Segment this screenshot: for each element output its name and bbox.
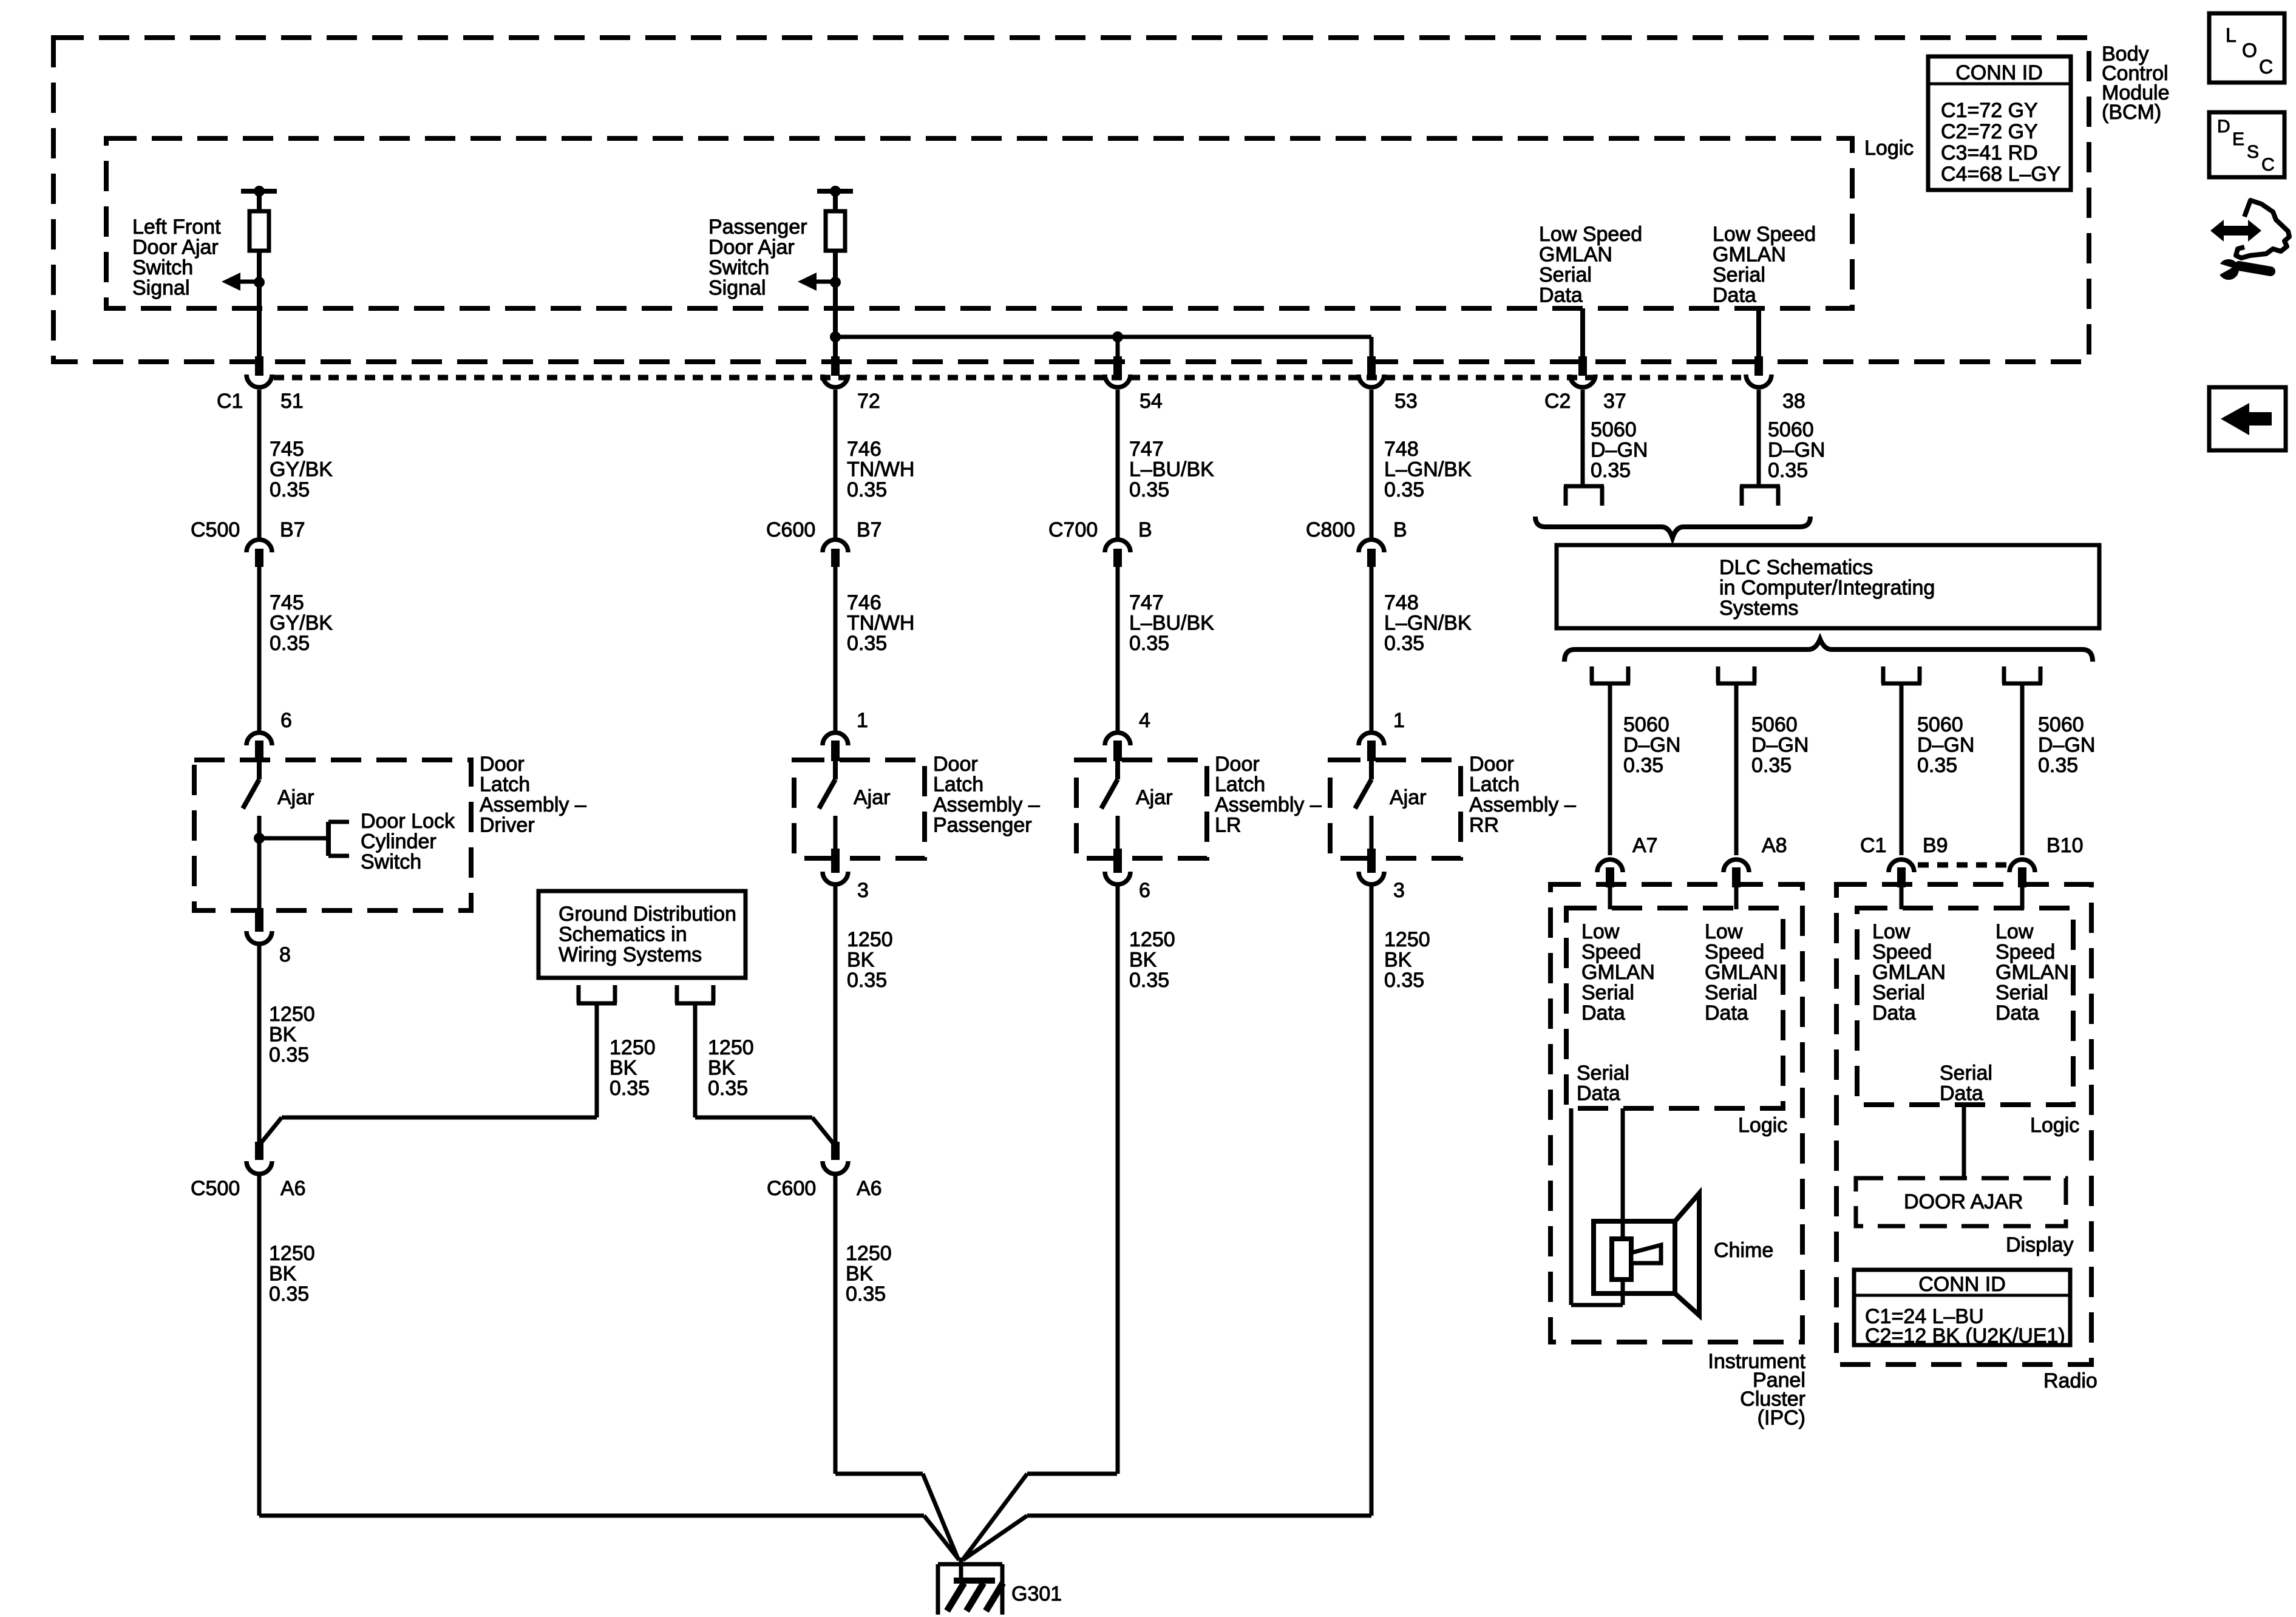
svg-text:1250: 1250 <box>269 1242 315 1265</box>
svg-text:L–BU/BK: L–BU/BK <box>1129 612 1214 635</box>
svg-text:BK: BK <box>269 1263 297 1286</box>
svg-text:Serial: Serial <box>1713 263 1765 286</box>
svg-text:B: B <box>1393 518 1407 541</box>
svg-text:0.35: 0.35 <box>1384 969 1424 992</box>
svg-text:0.35: 0.35 <box>1384 478 1424 501</box>
svg-text:1: 1 <box>1393 709 1405 732</box>
svg-text:DOOR AJAR: DOOR AJAR <box>1904 1190 2023 1213</box>
svg-text:Low Speed: Low Speed <box>1539 223 1642 246</box>
svg-text:Door: Door <box>1469 753 1514 776</box>
svg-text:0.35: 0.35 <box>846 1283 886 1306</box>
svg-text:3: 3 <box>857 879 869 902</box>
svg-text:A7: A7 <box>1632 834 1658 857</box>
svg-text:0.35: 0.35 <box>1129 969 1169 992</box>
svg-text:5060: 5060 <box>1591 418 1637 441</box>
svg-text:GY/BK: GY/BK <box>270 612 333 635</box>
svg-text:TN/WH: TN/WH <box>847 458 914 481</box>
svg-text:Serial: Serial <box>1872 981 1925 1005</box>
svg-text:748: 748 <box>1384 438 1419 461</box>
svg-text:3: 3 <box>1393 879 1405 902</box>
svg-text:0.35: 0.35 <box>1623 754 1663 777</box>
svg-text:Low: Low <box>1995 920 2034 943</box>
svg-text:G301: G301 <box>1011 1582 1062 1605</box>
svg-text:D–GN: D–GN <box>1591 439 1648 462</box>
svg-text:BK: BK <box>847 949 875 972</box>
svg-text:0.35: 0.35 <box>269 1043 309 1066</box>
svg-text:C4=68 L–GY: C4=68 L–GY <box>1941 163 2061 186</box>
svg-text:Serial: Serial <box>1940 1062 1992 1085</box>
svg-text:38: 38 <box>1782 390 1805 413</box>
svg-text:747: 747 <box>1129 438 1164 461</box>
svg-text:Data: Data <box>1872 1002 1916 1025</box>
svg-text:CONN ID: CONN ID <box>1955 61 2043 84</box>
svg-text:B10: B10 <box>2046 834 2084 857</box>
svg-text:5060: 5060 <box>1917 713 1963 736</box>
svg-text:Ajar: Ajar <box>1390 786 1426 809</box>
svg-text:0.35: 0.35 <box>1917 754 1957 777</box>
svg-text:0.35: 0.35 <box>847 632 887 655</box>
svg-text:746: 746 <box>847 591 881 614</box>
svg-text:C2: C2 <box>1544 390 1571 413</box>
svg-text:CONN ID: CONN ID <box>1918 1273 2006 1296</box>
svg-text:0.35: 0.35 <box>269 1283 309 1306</box>
svg-text:BK: BK <box>708 1057 736 1080</box>
svg-text:Assembly –: Assembly – <box>1469 793 1576 816</box>
svg-text:1250: 1250 <box>1384 928 1430 951</box>
svg-text:1250: 1250 <box>846 1242 892 1265</box>
svg-text:6: 6 <box>280 709 292 732</box>
svg-text:0.35: 0.35 <box>2038 754 2078 777</box>
svg-text:Latch: Latch <box>1215 773 1265 796</box>
svg-text:5060: 5060 <box>2038 713 2084 736</box>
svg-text:C2=12 BK (U2K/UE1): C2=12 BK (U2K/UE1) <box>1865 1324 2065 1347</box>
svg-text:A8: A8 <box>1762 834 1787 857</box>
svg-text:5060: 5060 <box>1623 713 1669 736</box>
svg-text:53: 53 <box>1394 390 1418 413</box>
svg-text:5060: 5060 <box>1768 418 1814 441</box>
svg-text:Left Front: Left Front <box>132 215 221 239</box>
svg-text:D–GN: D–GN <box>1751 734 1809 757</box>
svg-text:GMLAN: GMLAN <box>1705 961 1778 984</box>
svg-text:S: S <box>2247 142 2259 162</box>
svg-text:Data: Data <box>1940 1082 1983 1105</box>
svg-text:1250: 1250 <box>610 1036 656 1059</box>
svg-text:Serial: Serial <box>1539 263 1592 286</box>
svg-text:54: 54 <box>1140 390 1163 413</box>
svg-text:745: 745 <box>270 438 304 461</box>
svg-text:72: 72 <box>857 390 880 413</box>
svg-text:Low: Low <box>1705 920 1743 943</box>
svg-text:B7: B7 <box>280 518 305 541</box>
svg-text:C: C <box>2261 155 2275 175</box>
svg-text:51: 51 <box>280 390 304 413</box>
svg-text:Door: Door <box>480 753 525 776</box>
svg-text:Data: Data <box>1995 1002 2039 1025</box>
svg-text:Door Ajar: Door Ajar <box>132 236 219 259</box>
svg-text:GMLAN: GMLAN <box>1872 961 1946 984</box>
svg-text:RR: RR <box>1469 814 1499 837</box>
svg-text:0.35: 0.35 <box>610 1077 650 1100</box>
svg-text:O: O <box>2242 39 2257 61</box>
svg-text:D–GN: D–GN <box>1917 734 1974 757</box>
svg-text:0.35: 0.35 <box>847 969 887 992</box>
svg-text:D–GN: D–GN <box>2038 734 2095 757</box>
svg-text:Latch: Latch <box>480 773 530 796</box>
svg-text:(BCM): (BCM) <box>2102 101 2161 124</box>
svg-text:1250: 1250 <box>269 1003 315 1026</box>
svg-text:Latch: Latch <box>933 773 983 796</box>
svg-text:GY/BK: GY/BK <box>270 458 333 481</box>
svg-text:Assembly –: Assembly – <box>1215 793 1322 816</box>
svg-text:747: 747 <box>1129 591 1164 614</box>
svg-text:Speed: Speed <box>1995 941 2055 964</box>
svg-text:C1=72 GY: C1=72 GY <box>1941 99 2038 122</box>
svg-text:5060: 5060 <box>1751 713 1798 736</box>
svg-text:Data: Data <box>1713 284 1756 307</box>
svg-text:L–BU/BK: L–BU/BK <box>1129 458 1214 481</box>
svg-text:D–GN: D–GN <box>1768 439 1825 462</box>
svg-text:Speed: Speed <box>1705 941 1764 964</box>
svg-text:C3=41 RD: C3=41 RD <box>1941 141 2038 164</box>
svg-text:BK: BK <box>846 1263 874 1286</box>
svg-text:B9: B9 <box>1923 834 1948 857</box>
svg-text:Data: Data <box>1705 1002 1748 1025</box>
svg-text:8: 8 <box>279 943 291 966</box>
svg-text:BK: BK <box>1129 949 1157 972</box>
svg-text:C: C <box>2259 56 2273 78</box>
svg-text:0.35: 0.35 <box>708 1077 748 1100</box>
svg-text:Assembly –: Assembly – <box>933 793 1040 816</box>
svg-text:1: 1 <box>857 709 868 732</box>
svg-text:Speed: Speed <box>1872 941 1932 964</box>
svg-text:0.35: 0.35 <box>1591 459 1631 482</box>
svg-text:GMLAN: GMLAN <box>1581 961 1655 984</box>
svg-text:745: 745 <box>270 591 304 614</box>
svg-text:Driver: Driver <box>480 814 535 837</box>
svg-text:Wiring Systems: Wiring Systems <box>559 943 702 966</box>
svg-text:GMLAN: GMLAN <box>1713 243 1786 266</box>
svg-text:C600: C600 <box>767 1177 816 1200</box>
svg-text:Assembly –: Assembly – <box>480 793 586 816</box>
svg-text:6: 6 <box>1139 879 1150 902</box>
svg-text:Switch: Switch <box>132 256 193 279</box>
svg-text:L–GN/BK: L–GN/BK <box>1384 458 1472 481</box>
svg-text:L: L <box>2226 24 2237 46</box>
svg-text:C1: C1 <box>1860 834 1886 857</box>
svg-text:B7: B7 <box>857 518 882 541</box>
svg-text:0.35: 0.35 <box>1129 632 1169 655</box>
svg-text:C800: C800 <box>1306 518 1355 541</box>
svg-text:1250: 1250 <box>708 1036 754 1059</box>
svg-text:37: 37 <box>1603 390 1626 413</box>
svg-text:0.35: 0.35 <box>1129 478 1169 501</box>
svg-text:Ground Distribution: Ground Distribution <box>559 903 736 926</box>
svg-text:Logic: Logic <box>1864 137 1914 160</box>
svg-text:Systems: Systems <box>1719 597 1798 620</box>
svg-text:0.35: 0.35 <box>1751 754 1792 777</box>
svg-text:TN/WH: TN/WH <box>847 612 914 635</box>
svg-text:A6: A6 <box>857 1177 882 1200</box>
svg-text:DLC Schematics: DLC Schematics <box>1719 556 1873 579</box>
svg-text:GMLAN: GMLAN <box>1995 961 2069 984</box>
svg-text:BK: BK <box>610 1057 637 1080</box>
svg-text:1250: 1250 <box>847 928 893 951</box>
svg-text:1250: 1250 <box>1129 928 1175 951</box>
svg-text:Ajar: Ajar <box>854 786 890 809</box>
svg-text:C700: C700 <box>1048 518 1098 541</box>
svg-text:L–GN/BK: L–GN/BK <box>1384 612 1472 635</box>
svg-text:C2=72 GY: C2=72 GY <box>1941 120 2038 143</box>
svg-text:C500: C500 <box>191 1177 240 1200</box>
svg-text:GMLAN: GMLAN <box>1539 243 1612 266</box>
svg-text:Serial: Serial <box>1705 981 1758 1005</box>
svg-text:Signal: Signal <box>132 277 190 300</box>
svg-text:E: E <box>2232 129 2244 149</box>
svg-text:in Computer/Integrating: in Computer/Integrating <box>1719 577 1935 600</box>
svg-text:D–GN: D–GN <box>1623 734 1680 757</box>
svg-text:Display: Display <box>2006 1233 2073 1256</box>
svg-text:0.35: 0.35 <box>270 478 310 501</box>
svg-text:BK: BK <box>269 1023 297 1046</box>
svg-text:Low: Low <box>1872 920 1911 943</box>
svg-text:LR: LR <box>1215 814 1241 837</box>
svg-text:0.35: 0.35 <box>270 632 310 655</box>
svg-text:0.35: 0.35 <box>1768 459 1808 482</box>
svg-text:Serial: Serial <box>1995 981 2048 1005</box>
svg-text:Latch: Latch <box>1469 773 1520 796</box>
svg-text:Signal: Signal <box>708 277 766 300</box>
svg-text:748: 748 <box>1384 591 1419 614</box>
svg-text:Switch: Switch <box>708 256 769 279</box>
svg-text:Door: Door <box>1215 753 1260 776</box>
svg-text:C500: C500 <box>191 518 240 541</box>
svg-text:Logic: Logic <box>2030 1114 2079 1137</box>
svg-text:Ajar: Ajar <box>277 786 314 809</box>
svg-text:Logic: Logic <box>1738 1114 1787 1137</box>
svg-text:B: B <box>1138 518 1152 541</box>
svg-text:Schematics in: Schematics in <box>559 923 687 946</box>
svg-text:Low Speed: Low Speed <box>1713 223 1816 246</box>
svg-text:Radio: Radio <box>2043 1369 2097 1392</box>
svg-text:Low: Low <box>1581 920 1620 943</box>
svg-text:C600: C600 <box>766 518 815 541</box>
svg-text:(IPC): (IPC) <box>1758 1406 1805 1429</box>
svg-text:Door Lock: Door Lock <box>361 810 455 833</box>
svg-text:D: D <box>2217 117 2230 137</box>
svg-text:Chime: Chime <box>1714 1239 1773 1262</box>
svg-text:Serial: Serial <box>1577 1062 1629 1085</box>
svg-text:4: 4 <box>1139 709 1150 732</box>
svg-text:C1: C1 <box>217 390 243 413</box>
svg-text:Door: Door <box>933 753 978 776</box>
svg-text:Passenger: Passenger <box>708 215 807 239</box>
svg-text:Data: Data <box>1539 284 1583 307</box>
svg-text:0.35: 0.35 <box>847 478 887 501</box>
svg-text:Data: Data <box>1581 1002 1625 1025</box>
svg-text:0.35: 0.35 <box>1384 632 1424 655</box>
svg-text:Cylinder: Cylinder <box>361 830 436 853</box>
svg-text:Ajar: Ajar <box>1136 786 1172 809</box>
svg-text:Door Ajar: Door Ajar <box>708 236 795 259</box>
svg-text:Speed: Speed <box>1581 941 1641 964</box>
svg-text:A6: A6 <box>280 1177 306 1200</box>
svg-text:Passenger: Passenger <box>933 814 1032 837</box>
svg-text:Data: Data <box>1577 1082 1620 1105</box>
svg-text:BK: BK <box>1384 949 1412 972</box>
svg-text:Switch: Switch <box>361 850 421 873</box>
svg-text:Serial: Serial <box>1581 981 1634 1005</box>
svg-text:746: 746 <box>847 438 881 461</box>
